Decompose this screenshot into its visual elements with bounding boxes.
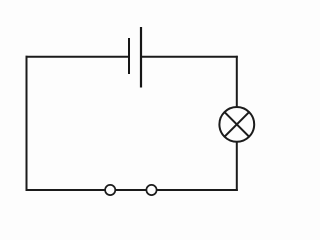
lamp L1	[219, 107, 254, 142]
battery cell B1	[129, 27, 141, 88]
lamp cross stroke 1	[225, 112, 250, 137]
wire: left vertical side	[26, 57, 28, 190]
lamp cross stroke 2	[225, 112, 250, 137]
battery short plate (negative terminal)	[128, 38, 130, 74]
wire: bottom segment between switch terminals	[116, 189, 146, 191]
switch terminal circle right	[146, 185, 156, 195]
wire: right vertical lower segment from lamp to bottom corner	[236, 142, 238, 190]
switch terminal circle left	[105, 185, 115, 195]
wire: right vertical upper segment from top corner to lamp	[236, 57, 238, 107]
wire: top-right segment from battery positive plate to right corner	[141, 56, 237, 58]
battery long plate (positive terminal)	[140, 27, 142, 88]
switch S1	[105, 185, 156, 195]
wire: bottom segment from switch terminal to right corner	[157, 189, 237, 191]
wire: top-left segment from left corner to battery negative plate	[27, 56, 129, 58]
wire: bottom segment from left corner to switch terminal	[27, 189, 105, 191]
lamp circle	[219, 107, 254, 142]
